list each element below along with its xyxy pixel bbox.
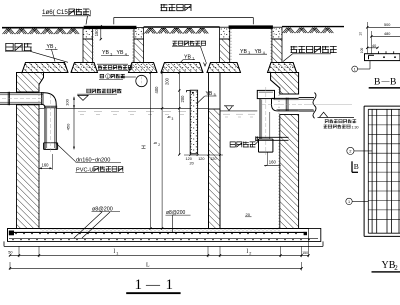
shaft2 inner plaster	[230, 29, 232, 63]
svg-text:—: —	[381, 76, 391, 85]
outlet tee fitting	[257, 90, 274, 98]
dim chain H	[150, 73, 152, 229]
svg-text:YB: YB	[102, 50, 109, 56]
svg-text:1: 1	[348, 200, 350, 204]
dim line L	[10, 267, 302, 269]
B-B slab bar	[365, 54, 400, 61]
water waves c1	[78, 111, 86, 113]
svg-text:120: 120	[198, 157, 204, 161]
shaft2 left wall	[220, 39, 230, 63]
floor top plaster dots	[40, 229, 280, 231]
dim 160 outlet	[266, 152, 268, 165]
svg-text:1:30: 1:30	[352, 125, 359, 129]
svg-text:1: 1	[192, 57, 194, 61]
svg-text:480: 480	[384, 32, 390, 36]
svg-text:1: 1	[354, 68, 356, 72]
svg-text:3: 3	[172, 117, 174, 121]
shaft1 left wall collar	[83, 28, 93, 40]
svg-text:120: 120	[186, 157, 192, 161]
dim 450 inlet	[73, 108, 75, 149]
tee centerline	[265, 87, 267, 155]
svg-text:160: 160	[269, 159, 277, 164]
dim 150 shaft1	[100, 26, 102, 39]
svg-text:160: 160	[42, 163, 50, 168]
svg-text:B: B	[374, 77, 380, 87]
outlet centerline	[306, 104, 352, 106]
svg-text:200: 200	[164, 77, 169, 85]
svg-text:100: 100	[360, 48, 364, 54]
svg-text:L: L	[146, 263, 150, 269]
outlet level mark	[319, 112, 327, 117]
svg-text:450: 450	[66, 123, 71, 130]
pipe leader	[55, 143, 75, 162]
right wall lower	[280, 115, 299, 229]
shaft2 right wall	[272, 39, 282, 63]
vent note line1	[98, 65, 132, 69]
water level line c1	[40, 107, 45, 109]
svg-text:5: 5	[214, 93, 216, 97]
right wall inner plaster dots	[278, 88, 280, 228]
svg-text:100: 100	[64, 98, 69, 105]
dim extension lines bottom	[18, 247, 20, 258]
svg-text:1: 1	[55, 46, 57, 50]
svg-text:150: 150	[302, 251, 308, 255]
svg-text:400: 400	[154, 86, 159, 94]
svg-text:1: 1	[116, 251, 118, 255]
svg-text:20: 20	[190, 161, 194, 165]
svg-text:1: 1	[135, 277, 143, 293]
roof slab YB piece 2	[71, 63, 98, 73]
YB2 callout 2	[347, 147, 354, 154]
water level line c2	[221, 110, 258, 112]
roof slab YB piece 6	[268, 63, 297, 73]
pipe support bracket	[256, 136, 289, 138]
vent note line2	[100, 74, 104, 78]
svg-text:): )	[89, 9, 91, 16]
shaft1 right wall collar	[134, 28, 144, 40]
svg-text:2: 2	[249, 251, 251, 255]
svg-text:B: B	[390, 77, 396, 87]
shaft2 right wall collar	[272, 27, 282, 39]
dim chain 200 200 h3	[178, 73, 180, 155]
grade line middle	[144, 26, 220, 28]
svg-text:2: 2	[158, 143, 160, 147]
roof slab YB piece 3	[129, 63, 158, 73]
section marker B	[351, 161, 353, 172]
label no-seal	[6, 43, 32, 51]
shaft1 cast iron cover	[84, 26, 136, 29]
svg-text:YB: YB	[255, 49, 262, 55]
vent pipe circle	[136, 75, 147, 86]
svg-text:2: 2	[394, 264, 398, 272]
svg-text:50: 50	[8, 251, 12, 255]
svg-text:1: 1	[107, 75, 109, 79]
dim 100 inlet	[73, 97, 75, 108]
svg-text:40: 40	[372, 44, 376, 48]
partition wall outline	[208, 73, 210, 229]
level mark c2	[226, 106, 230, 111]
baffle bottom dims	[184, 154, 223, 156]
left wall upper	[17, 73, 44, 93]
svg-text:H: H	[142, 145, 148, 149]
roof slab YB piece 5	[207, 63, 241, 73]
svg-text:—: —	[145, 278, 161, 293]
soil hatch right	[283, 28, 334, 33]
grade line left	[2, 27, 83, 29]
shaft1 right wall	[134, 39, 144, 63]
YB2 slab plan grid	[363, 106, 365, 236]
floor rebar	[10, 231, 304, 233]
svg-text:500: 500	[384, 23, 390, 27]
B-B bar callout 1	[352, 66, 358, 72]
shaft2 left wall collar	[220, 27, 230, 39]
B-B dims	[366, 22, 368, 54]
left wall lower	[17, 105, 40, 229]
svg-text:YB: YB	[240, 49, 247, 55]
left wall inner plaster dots	[38, 85, 40, 229]
YB2 callout 1	[346, 198, 352, 204]
dim line l1 l2	[10, 254, 309, 256]
outlet pipe and break	[299, 97, 314, 99]
shaft1 left wall	[83, 39, 93, 63]
svg-text:200: 200	[180, 95, 185, 103]
svg-text:150: 150	[94, 29, 99, 37]
inlet pipe centerline	[2, 98, 43, 100]
roof slab YB piece 4	[161, 63, 203, 73]
outlet level text	[325, 119, 356, 123]
label mortar caulk	[173, 41, 206, 46]
dim chain 400 h2	[161, 73, 163, 229]
soil hatch middle	[145, 28, 209, 33]
label cast iron cover	[161, 4, 192, 11]
dim 160 inlet	[39, 167, 52, 169]
hanging baffle YB5	[190, 90, 197, 154]
svg-text:B: B	[354, 162, 359, 171]
inlet pipe with elbow	[0, 92, 45, 94]
svg-text:1: 1	[166, 277, 174, 293]
svg-text:1ø6( C15: 1ø6( C15	[42, 9, 68, 16]
svg-text:YB: YB	[117, 50, 124, 56]
svg-text:20: 20	[246, 212, 251, 217]
vent note leader	[120, 76, 135, 78]
soil hatch left	[3, 29, 80, 34]
inlet invert label	[87, 89, 122, 93]
slab joint notch	[204, 63, 207, 67]
label plastic plug	[291, 46, 337, 53]
floor slab outline	[8, 228, 321, 241]
partition wall hatch	[209, 109, 221, 229]
shaft2 cover	[229, 26, 273, 29]
svg-text:10: 10	[359, 32, 363, 36]
grade line right	[282, 26, 344, 28]
label pipe support	[230, 142, 256, 148]
roof slab YB piece 1	[22, 63, 68, 73]
water waves c2	[223, 113, 230, 115]
svg-text:120: 120	[210, 157, 216, 161]
right wall upper	[271, 73, 299, 95]
shaft1 inner plaster	[93, 29, 95, 63]
floor lean concrete	[4, 245, 323, 247]
